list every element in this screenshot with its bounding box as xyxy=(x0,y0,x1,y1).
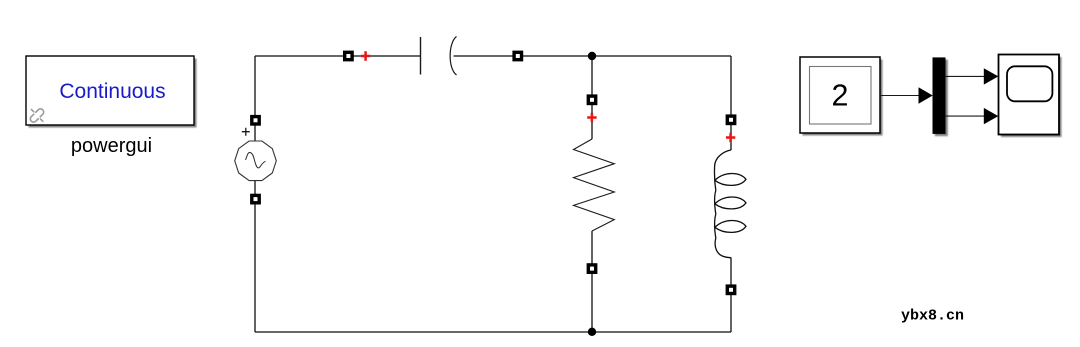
svg-text:2: 2 xyxy=(832,79,849,113)
svg-text:powergui: powergui xyxy=(71,135,152,157)
svg-text:Continuous: Continuous xyxy=(59,80,165,103)
svg-text:ybx8.cn: ybx8.cn xyxy=(901,308,964,325)
